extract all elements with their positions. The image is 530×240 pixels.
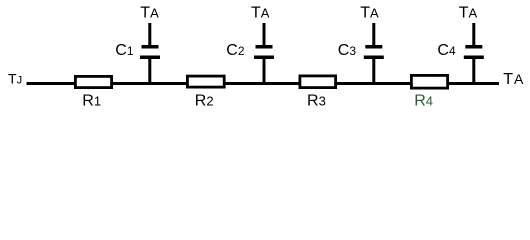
wire R2 to node B — [223, 82, 265, 85]
resistor R3 — [300, 76, 336, 88]
svg-text:C2: C2 — [226, 42, 245, 59]
svg-text:TA: TA — [251, 5, 270, 22]
wire R4 to node D — [447, 82, 475, 85]
wire TJ to R1 — [27, 82, 77, 85]
svg-text:TA: TA — [503, 71, 524, 88]
capacitor C1 — [140, 23, 160, 83]
resistor R2 — [187, 76, 224, 87]
svg-text:TA: TA — [360, 5, 379, 22]
svg-text:R4: R4 — [414, 92, 433, 109]
svg-text:C3: C3 — [338, 42, 357, 59]
capacitor C3 — [364, 23, 384, 83]
resistor R1 — [75, 76, 111, 87]
svg-text:R3: R3 — [307, 92, 326, 109]
svg-text:TA: TA — [140, 5, 159, 22]
svg-text:C4: C4 — [437, 42, 456, 59]
wire R3 to node C — [335, 82, 375, 85]
wire node A to R2 — [149, 82, 189, 85]
svg-text:R1: R1 — [82, 92, 101, 109]
capacitor C2 — [254, 23, 274, 83]
wire node C to R4 — [373, 82, 412, 85]
wire R1 to node A — [110, 82, 151, 85]
wire node D to TA — [473, 82, 499, 85]
svg-text:TA: TA — [459, 5, 478, 22]
svg-text:R2: R2 — [195, 92, 214, 109]
svg-text:C1: C1 — [115, 42, 134, 59]
wire node B to R3 — [263, 82, 301, 85]
resistor R4 — [411, 75, 447, 88]
capacitor C4 — [464, 23, 484, 83]
